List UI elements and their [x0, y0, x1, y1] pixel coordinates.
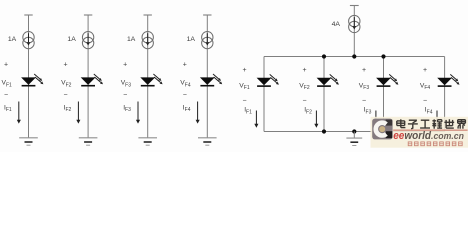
wire (circuit 4 vertical) — [206, 15, 208, 138]
current source I4 1A — [202, 32, 213, 49]
LED D2 — [81, 74, 103, 86]
svg-text:−: − — [423, 97, 427, 104]
current arrow IF3 (branch) — [374, 111, 378, 128]
svg-text:4A: 4A — [332, 21, 341, 28]
node top terminal 1 — [24, 14, 32, 16]
svg-text:+: + — [4, 61, 8, 68]
svg-text:−: − — [64, 92, 68, 99]
current source I1 1A — [23, 32, 34, 49]
svg-text:1A: 1A — [8, 36, 17, 43]
wire ground stub — [353, 132, 355, 138]
svg-text:−: − — [242, 97, 246, 104]
svg-text:+: + — [423, 67, 427, 74]
watermark title 电子工程世界 (stylized) — [397, 119, 406, 127]
node top terminal 2 — [84, 14, 92, 16]
watermark slogan (stylized) — [408, 142, 462, 146]
svg-text:+: + — [242, 67, 246, 74]
node top terminal 4 — [203, 14, 211, 16]
watermark logo icon — [372, 119, 392, 140]
current arrow IF3 — [136, 102, 140, 124]
LED D1 — [21, 74, 43, 86]
junction dot bottom bus / branch 3 — [381, 129, 385, 133]
current arrow IF2 (branch) — [314, 111, 318, 128]
svg-text:1A: 1A — [187, 36, 196, 43]
current arrow IF1 (branch) — [254, 111, 258, 128]
node top terminal 3 — [144, 14, 152, 16]
wire bottom bus — [264, 131, 445, 133]
current source I2 1A — [82, 32, 93, 49]
wire (circuit 3 vertical) — [147, 15, 149, 138]
wire (parallel branch 1) — [263, 57, 265, 132]
LED D6 — [317, 74, 339, 86]
junction dot bottom bus / branch 2 — [322, 129, 326, 133]
LED D3 — [140, 74, 162, 86]
svg-text:−: − — [4, 92, 8, 99]
wire (4A source vertical) — [353, 6, 355, 57]
node top terminal (4A) — [350, 5, 359, 7]
current arrow IF1 — [17, 102, 21, 124]
svg-text:−: − — [123, 92, 127, 99]
svg-text:−: − — [302, 97, 306, 104]
ground (combined circuit) — [346, 138, 362, 145]
watermark background — [371, 117, 468, 148]
wire (parallel branch 2) — [323, 57, 325, 132]
ground (circuit 2) — [79, 138, 98, 145]
current arrow IF2 — [76, 102, 80, 124]
current source I5 4A — [349, 15, 360, 32]
svg-text:+: + — [183, 61, 187, 68]
junction dot top bus / branch 2 — [322, 54, 326, 58]
current source I3 1A — [142, 32, 153, 49]
svg-text:1A: 1A — [127, 36, 136, 43]
ground (circuit 1) — [19, 138, 38, 145]
LED D7 — [376, 74, 398, 86]
wire (parallel branch 3) — [383, 57, 385, 132]
wire (circuit 1 vertical) — [28, 15, 30, 138]
svg-text:eeworld.com.cn: eeworld.com.cn — [393, 130, 464, 142]
LED D4 — [200, 74, 222, 86]
junction dot top bus / source — [352, 54, 356, 58]
ground (circuit 4) — [198, 138, 217, 145]
svg-text:+: + — [302, 67, 306, 74]
svg-text:1A: 1A — [67, 36, 76, 43]
LED D5 — [257, 74, 279, 86]
wire (parallel branch 4) — [444, 57, 446, 132]
ground (circuit 3) — [138, 138, 157, 145]
svg-text:+: + — [64, 61, 68, 68]
svg-text:−: − — [183, 92, 187, 99]
current arrow IF4 — [196, 102, 200, 124]
svg-text:+: + — [123, 61, 127, 68]
LED D8 — [437, 74, 459, 86]
wire (circuit 2 vertical) — [87, 15, 89, 138]
wire top bus — [264, 56, 445, 58]
svg-text:−: − — [362, 97, 366, 104]
junction dot top bus / branch 3 — [381, 54, 385, 58]
svg-text:+: + — [362, 67, 366, 74]
current arrow IF4 (branch) — [435, 111, 439, 128]
junction dot bottom bus / ground stub — [352, 129, 356, 133]
watermark red underline — [393, 129, 467, 131]
